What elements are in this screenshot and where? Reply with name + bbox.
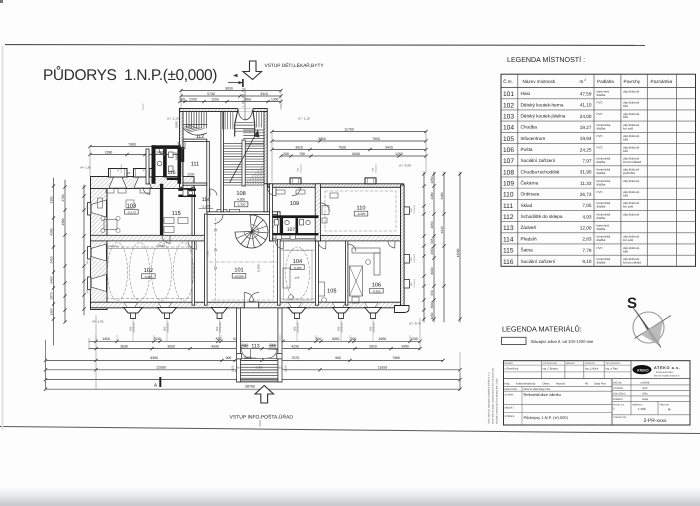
svg-text:Náchod: Náchod: [556, 383, 565, 386]
right bays: [404, 207, 409, 214]
svg-text:VÝKRES: VÝKRES: [505, 414, 515, 418]
svg-text:PŮDORYS 1.N.P.(±0,000): PŮDORYS 1.N.P.(±0,000): [43, 65, 218, 84]
svg-text:7,79: 7,79: [582, 248, 592, 253]
svg-text:103: 103: [127, 204, 136, 210]
svg-text:107: 107: [503, 158, 514, 165]
svg-text:-1,350: -1,350: [237, 203, 246, 207]
svg-text:Chodba: Chodba: [521, 125, 538, 130]
svg-text:Královéhradecký: Královéhradecký: [516, 383, 536, 386]
svg-text:OBJEKT: OBJEKT: [505, 407, 515, 410]
svg-text:9050: 9050: [225, 86, 233, 90]
svg-text:m/2008: m/2008: [641, 381, 650, 384]
svg-text:Schodiště do sklepa: Schodiště do sklepa: [521, 214, 563, 219]
wall 115 right: [192, 187, 195, 235]
svg-text:5640: 5640: [158, 244, 165, 248]
top bays right wing: [290, 178, 301, 184]
svg-text:7980: 7980: [392, 356, 400, 360]
wall 102 right / corridor: [192, 241, 195, 305]
dashed inner rect room 110: [325, 191, 396, 231]
title block: [504, 361, 691, 425]
bottom dim chain row A: [89, 340, 420, 342]
splayed entrance portico: [235, 110, 255, 136]
svg-text:Sklad: Sklad: [521, 203, 533, 208]
wall band between 110 and 106: [321, 235, 401, 241]
svg-text:dlažba: dlažba: [597, 171, 606, 175]
107 fixtures: [275, 220, 279, 226]
svg-text:115: 115: [172, 211, 181, 217]
extension verticals at bottom bays: [132, 319, 134, 342]
svg-text:1200: 1200: [410, 337, 418, 341]
svg-text:114: 114: [202, 197, 210, 203]
svg-text:Obecní úřad Starý Ples: Obecní úřad Starý Ples: [524, 388, 552, 391]
svg-text:VF -1,05: VF -1,05: [92, 320, 104, 324]
svg-text:ker.sokl: ker.sokl: [623, 205, 634, 209]
north entrance arrow (VSTUP DETI): [243, 61, 262, 80]
svg-text:Dětský koutek-jídelna: Dětský koutek-jídelna: [521, 114, 566, 119]
svg-text:Sociální zařízení: Sociální zařízení: [521, 259, 556, 264]
compass north arrow: [627, 295, 671, 348]
svg-text:1250: 1250: [395, 152, 403, 156]
svg-text:47ks: 47ks: [642, 392, 648, 395]
svg-text:PŘÍLOHA: PŘÍLOHA: [660, 404, 670, 407]
svg-text:s.Šermiřová: s.Šermiřová: [505, 367, 519, 371]
svg-text:1000(x00): 1000(x00): [108, 245, 119, 248]
svg-text:Okres:: Okres:: [543, 383, 551, 386]
svg-text:S: S: [627, 295, 637, 312]
svg-text:bílá: bílá: [623, 193, 628, 197]
right vertical dim chain: [423, 172, 425, 322]
svg-text:7,05: 7,05: [582, 203, 592, 208]
svg-text:3100: 3100: [49, 196, 53, 203]
svg-text:dlažba: dlažba: [597, 238, 606, 242]
svg-text:24,00: 24,00: [580, 114, 592, 119]
svg-text:Sociální zařízení: Sociální zařízení: [521, 158, 556, 163]
svg-text:109: 109: [503, 181, 514, 188]
furniture room 104: [283, 268, 290, 288]
tower right wall: [264, 112, 267, 184]
svg-text:104: 104: [293, 259, 302, 265]
vault arcs room 104: [284, 251, 313, 301]
main south door arcs: [244, 292, 254, 301]
svg-text:820: 820: [216, 337, 222, 341]
black wall 111 left bit: [181, 147, 184, 162]
right corner foot: [395, 306, 410, 313]
svg-text:bílá: bílá: [623, 138, 628, 142]
svg-text:3300: 3300: [269, 343, 276, 347]
dim chain left block top: [90, 146, 182, 148]
svg-text:900: 900: [335, 356, 341, 360]
svg-text:PVC: PVC: [597, 190, 604, 194]
wall 109/110: [315, 184, 320, 241]
wall 111 bottom / 114 top: [183, 183, 207, 185]
svg-text:2: 2: [584, 78, 586, 82]
svg-text:Rekonstrukce zámku: Rekonstrukce zámku: [524, 392, 561, 397]
svg-text:7030: 7030: [338, 145, 346, 149]
svg-text:2,100: 2,100: [232, 365, 235, 372]
svg-text:12900: 12900: [156, 366, 166, 370]
svg-text:700: 700: [173, 152, 178, 155]
svg-text:28750: 28750: [245, 385, 255, 389]
svg-text:113: 113: [503, 225, 514, 232]
svg-text:101: 101: [503, 91, 514, 98]
svg-text:ATEKO a.s.: ATEKO a.s.: [654, 366, 680, 370]
furniture room 115: [164, 218, 174, 224]
svg-text:LEGENDA MATERIÁLŮ:: LEGENDA MATERIÁLŮ:: [502, 325, 582, 334]
svg-text:115: 115: [503, 248, 514, 255]
svg-text:9,10: 9,10: [582, 259, 592, 264]
116 fixtures: [157, 161, 162, 166]
svg-text:UT -0,70: UT -0,70: [409, 322, 421, 326]
svg-text:DSP: DSP: [642, 387, 648, 390]
svg-text:3000: 3000: [430, 301, 434, 308]
svg-text:5,100: 5,100: [257, 264, 261, 272]
materials swatch: [502, 337, 527, 344]
svg-text:6600: 6600: [352, 152, 360, 156]
svg-text:4230: 4230: [291, 344, 299, 348]
svg-text:19,94: 19,94: [580, 136, 592, 141]
svg-text:116: 116: [168, 170, 176, 176]
svg-text:19,27: 19,27: [580, 125, 592, 130]
black wall 116 left: [152, 145, 156, 184]
svg-text:2870: 2870: [49, 292, 53, 299]
svg-text:1500(x00): 1500(x00): [89, 257, 92, 266]
svg-text:1500(x00): 1500(x00): [120, 164, 123, 173]
svg-text:Název místnosti: Název místnosti: [523, 79, 556, 84]
svg-text:Tento výkres je autorským maje: Tento výkres je autorským majetkem ATEKO…: [488, 372, 491, 424]
svg-text:3850: 3850: [318, 137, 326, 141]
wall 112/111: [183, 139, 207, 141]
svg-text:6xA4: 6xA4: [642, 398, 648, 401]
svg-text:3690: 3690: [120, 344, 128, 348]
svg-text:3050: 3050: [167, 344, 175, 348]
outer wall bottom: [91, 302, 405, 308]
svg-text:1350: 1350: [49, 308, 53, 315]
wall band between rooms 103/115 and 102: [91, 235, 207, 241]
svg-text:dlažba: dlažba: [597, 205, 606, 209]
wall closing 116 step: [146, 149, 149, 184]
svg-text:5450: 5450: [49, 276, 53, 283]
top wall of hall 101: [207, 212, 279, 215]
svg-text:12,00: 12,00: [580, 226, 592, 231]
svg-text:ker.sokl: ker.sokl: [623, 126, 634, 130]
svg-text:116: 116: [503, 259, 514, 266]
svg-text:900: 900: [226, 356, 232, 360]
ATEKO logo: [633, 365, 652, 374]
svg-text:7540: 7540: [153, 337, 161, 341]
svg-text:102: 102: [144, 268, 153, 274]
svg-text:Předsíň: Předsíň: [521, 236, 538, 241]
svg-text:LEGENDA MÍSTNOSTÍ :: LEGENDA MÍSTNOSTÍ :: [507, 55, 585, 64]
svg-text:13200: 13200: [456, 248, 460, 257]
svg-text:váp.štuková: váp.štuková: [623, 179, 639, 183]
svg-text:450: 450: [277, 367, 282, 370]
svg-text:1500(x00): 1500(x00): [413, 205, 416, 214]
black wall 103|115: [160, 184, 163, 236]
svg-text:102: 102: [503, 102, 514, 109]
svg-text:3400: 3400: [401, 344, 409, 348]
wall 101 left: [205, 214, 208, 305]
furniture room 106: [352, 248, 380, 253]
svg-text:4280: 4280: [49, 228, 53, 235]
svg-text:6950: 6950: [379, 337, 387, 341]
svg-text:Pošta: Pošta: [521, 147, 533, 152]
black walls 107 cubicle divider 1: [281, 218, 284, 234]
black WC cubicle near 114 bottom: [178, 195, 196, 197]
svg-text:500: 500: [351, 337, 357, 341]
svg-text:Starý Ples: Starý Ples: [594, 383, 607, 386]
svg-text:pult: pult: [295, 276, 300, 280]
furniture room 109: [276, 190, 285, 194]
svg-text:108: 108: [503, 169, 514, 176]
svg-text:NAVRHL: NAVRHL: [505, 362, 514, 365]
scanner bottom shadow band: [0, 487, 700, 506]
svg-text:PVC: PVC: [597, 101, 604, 105]
entrance stair 113: [237, 308, 241, 382]
wall 109/107 left: [270, 184, 273, 241]
svg-text:-0,170: -0,170: [127, 210, 136, 214]
svg-text:-0,395: -0,395: [372, 289, 381, 293]
section mark A: [159, 378, 161, 386]
svg-text:2000: 2000: [187, 172, 194, 176]
svg-text:4380: 4380: [61, 218, 65, 225]
svg-text:Zádveří: Zádveří: [521, 225, 538, 230]
svg-text:3,300: 3,300: [256, 366, 263, 370]
svg-text:DATUM: DATUM: [613, 381, 621, 384]
svg-text:4240: 4240: [440, 226, 444, 233]
svg-text:bílá: bílá: [623, 104, 628, 108]
svg-text:Půdorysy 1.N.P. (±0,000): Půdorysy 1.N.P. (±0,000): [524, 415, 569, 420]
svg-text:ani jinak zveřejňován či posky: ani jinak zveřejňován či poskytnut třetí…: [496, 377, 499, 424]
svg-text:105: 105: [503, 136, 514, 143]
svg-text:111: 111: [503, 203, 513, 210]
svg-text:keram.obklad: keram.obklad: [623, 260, 641, 264]
svg-text:Č.m.: Č.m.: [503, 78, 513, 84]
svg-text:505: 505: [430, 238, 434, 244]
svg-text:Chodba+schodiště: Chodba+schodiště: [521, 169, 560, 174]
svg-text:VSTUP DĚTI,LÉKAŘ,BYTY: VSTUP DĚTI,LÉKAŘ,BYTY: [265, 62, 325, 69]
svg-text:107: 107: [287, 227, 296, 233]
svg-text:26,73: 26,73: [580, 192, 592, 197]
svg-text:2570: 2570: [292, 356, 300, 360]
door arcs various: [268, 188, 277, 196]
svg-text:11700: 11700: [344, 127, 353, 131]
svg-text:108: 108: [236, 191, 245, 197]
spiral stair: [235, 215, 268, 248]
north tower entrance door arcs: [238, 108, 253, 112]
bottom dim chain row B: [89, 348, 420, 350]
svg-text:Ing. A.Řad: Ing. A.Řad: [606, 367, 619, 371]
svg-text:2680: 2680: [175, 121, 179, 128]
svg-text:7,97: 7,97: [582, 159, 592, 164]
outer wall top right wing: [268, 184, 404, 188]
svg-text:1450: 1450: [102, 337, 110, 341]
svg-text:2390: 2390: [430, 247, 434, 254]
svg-text:dlažba: dlažba: [597, 126, 606, 130]
svg-text:A-: A-: [668, 407, 671, 411]
vault arcs room 102: [108, 243, 128, 301]
stair 108 upper flight treads: [244, 129, 265, 131]
svg-text:7850: 7850: [372, 137, 380, 141]
svg-text:31,90: 31,90: [580, 170, 592, 175]
svg-text:VYPRACOVAL: VYPRACOVAL: [543, 362, 558, 365]
svg-text:ZAK.ČÍSLO: ZAK.ČÍSLO: [613, 391, 626, 395]
tower left wall: [180, 109, 184, 188]
svg-text:2810: 2810: [369, 344, 377, 348]
svg-text:MÍ :: MÍ :: [585, 382, 590, 386]
furniture room 105: [319, 282, 325, 296]
svg-text:podl.lišta: podl.lišta: [623, 171, 635, 175]
svg-text:m: m: [580, 79, 584, 84]
svg-text:-0,395: -0,395: [357, 212, 366, 216]
svg-text:1500(x00): 1500(x00): [300, 164, 303, 173]
svg-text:3920: 3920: [295, 145, 303, 149]
svg-text:24,25: 24,25: [580, 147, 592, 152]
svg-text:9300: 9300: [150, 356, 158, 360]
svg-text:2,100: 2,100: [285, 365, 288, 372]
sheet bottom edge line: [0, 427, 700, 434]
svg-text:41,10: 41,10: [580, 103, 592, 108]
svg-text:nesmí být bez jejího souhlasu: nesmí být bez jejího souhlasu kopírován,…: [492, 367, 495, 424]
svg-text:11,33: 11,33: [580, 181, 592, 186]
bottom dim chain row D: [46, 359, 301, 361]
svg-text:STUPEŇ: STUPEŇ: [613, 386, 623, 390]
svg-text:FORMÁT: FORMÁT: [613, 397, 624, 401]
WC fixtures near 114: [183, 190, 188, 197]
black WC cubicle near 114 top: [178, 189, 196, 191]
svg-text:UT -1,10: UT -1,10: [298, 117, 310, 121]
furniture room 110: [322, 206, 329, 215]
svg-text:Poznámka: Poznámka: [651, 79, 673, 84]
dashed lines hall 101: [215, 218, 217, 300]
svg-text:VSTUP INFO,POŠTA,ÚŘAD: VSTUP INFO,POŠTA,ÚŘAD: [230, 414, 294, 421]
svg-text:TECH.KONTR.: TECH.KONTR.: [606, 362, 621, 365]
furniture room 103: [104, 220, 117, 230]
legend table: [501, 74, 696, 266]
svg-text:Podlaha: Podlaha: [597, 79, 614, 84]
svg-text:111: 111: [191, 162, 200, 168]
svg-text:103: 103: [503, 114, 514, 121]
svg-text:1300: 1300: [271, 97, 279, 101]
bottom bays (trapezoid pilasters): [124, 307, 143, 313]
svg-text:2200: 2200: [189, 97, 197, 101]
svg-text:1350: 1350: [430, 176, 434, 183]
svg-text:820: 820: [316, 337, 322, 341]
svg-text:1150: 1150: [430, 312, 434, 319]
svg-text:101: 101: [234, 268, 243, 274]
svg-text:dlažba: dlažba: [597, 227, 606, 231]
svg-text:Ing. F.Šprava: Ing. F.Šprava: [543, 367, 559, 371]
svg-text:2280: 2280: [105, 150, 113, 154]
svg-text:Pravounice 854: Pravounice 854: [656, 371, 673, 374]
svg-text:ker.sokl: ker.sokl: [623, 238, 634, 242]
svg-text:INVESTOR: INVESTOR: [505, 388, 517, 391]
svg-text:11650: 11650: [378, 366, 387, 370]
outer wall top of rooms 103/115 (thick): [91, 177, 195, 189]
svg-text:2-PR-xxxx: 2-PR-xxxx: [643, 418, 667, 424]
sheet top edge line: [5, 44, 645, 47]
svg-text:1500(x00): 1500(x00): [89, 201, 92, 210]
svg-text:4930: 4930: [211, 344, 219, 348]
black wall 116 top: [152, 145, 182, 149]
svg-text:112: 112: [196, 134, 204, 140]
dim connector verticals: [89, 148, 91, 176]
svg-text:113: 113: [251, 343, 259, 349]
svg-text:106: 106: [372, 283, 381, 289]
wall 105/106: [345, 241, 348, 305]
svg-text:1:100: 1:100: [638, 407, 646, 411]
svg-text:6000: 6000: [430, 267, 434, 274]
wall 104 right / 105 left: [315, 241, 318, 305]
svg-text:2,83: 2,83: [582, 237, 592, 242]
svg-text:Kraj:: Kraj:: [505, 383, 511, 386]
wall 111 right: [207, 142, 210, 212]
svg-text:2480: 2480: [440, 192, 444, 199]
black walls sanitary 107 top: [273, 215, 319, 218]
stair 108 main treads: [223, 143, 264, 145]
svg-text:dlažba: dlažba: [597, 260, 606, 264]
svg-text:Povrchy: Povrchy: [624, 79, 641, 84]
svg-text:112: 112: [503, 214, 514, 221]
svg-text:1500(x00): 1500(x00): [89, 286, 92, 295]
svg-text:2700: 2700: [61, 194, 65, 201]
svg-text:bílá: bílá: [623, 115, 628, 119]
stair 112 treads: [186, 112, 188, 129]
svg-text:47,59: 47,59: [580, 92, 592, 97]
svg-text:keram.obklad: keram.obklad: [623, 160, 641, 164]
svg-text:KRESLIL: KRESLIL: [566, 362, 576, 365]
svg-text:-1,270: -1,270: [201, 204, 210, 208]
svg-text:3310: 3310: [260, 92, 268, 96]
svg-text:950: 950: [430, 290, 434, 296]
svg-text:1250: 1250: [211, 97, 219, 101]
left vertical dim chain: [53, 178, 55, 345]
outer wall left (thick): [91, 177, 108, 310]
svg-text:Ing. Lžíčník: Ing. Lžíčník: [585, 368, 599, 371]
svg-text:bílá: bílá: [623, 149, 628, 153]
wall 101 right / 104 left: [278, 212, 281, 305]
svg-text:PVC: PVC: [597, 246, 604, 250]
svg-text:1500(x00): 1500(x00): [413, 279, 416, 288]
svg-text:dlažba: dlažba: [597, 93, 606, 97]
svg-text:PVC: PVC: [597, 134, 604, 138]
113 door swings: [242, 349, 251, 358]
svg-text:114: 114: [503, 236, 514, 243]
svg-text:4050: 4050: [430, 221, 434, 228]
svg-text:450: 450: [236, 367, 241, 370]
svg-text:Ordinace: Ordinace: [521, 192, 540, 197]
black wall 116 bottom: [167, 177, 181, 180]
bottom dim chain row E: [46, 369, 461, 371]
svg-text:500÷2,700: 500÷2,700: [244, 357, 257, 360]
dim chain right wing top: [272, 131, 426, 133]
corner speck: [0, 0, 3, 3]
svg-text:-0,265: -0,265: [144, 275, 153, 279]
svg-text:1500(x00): 1500(x00): [375, 164, 378, 173]
svg-text:Čekárna: Čekárna: [521, 180, 539, 186]
svg-text:700: 700: [299, 152, 305, 156]
svg-text:4,93: 4,93: [582, 214, 592, 219]
stairwell hatch: [243, 165, 264, 186]
svg-text:UT -1,10: UT -1,10: [167, 117, 179, 121]
svg-text:106: 106: [503, 147, 514, 154]
svg-text:±0,000: ±0,000: [234, 274, 243, 278]
outer wall right: [401, 185, 405, 310]
svg-text:PVC: PVC: [597, 145, 604, 149]
svg-text:3250: 3250: [332, 337, 340, 341]
svg-text:400: 400: [179, 97, 185, 101]
dim chain tower top: [181, 90, 281, 92]
wall 108 stair left: [221, 112, 224, 212]
